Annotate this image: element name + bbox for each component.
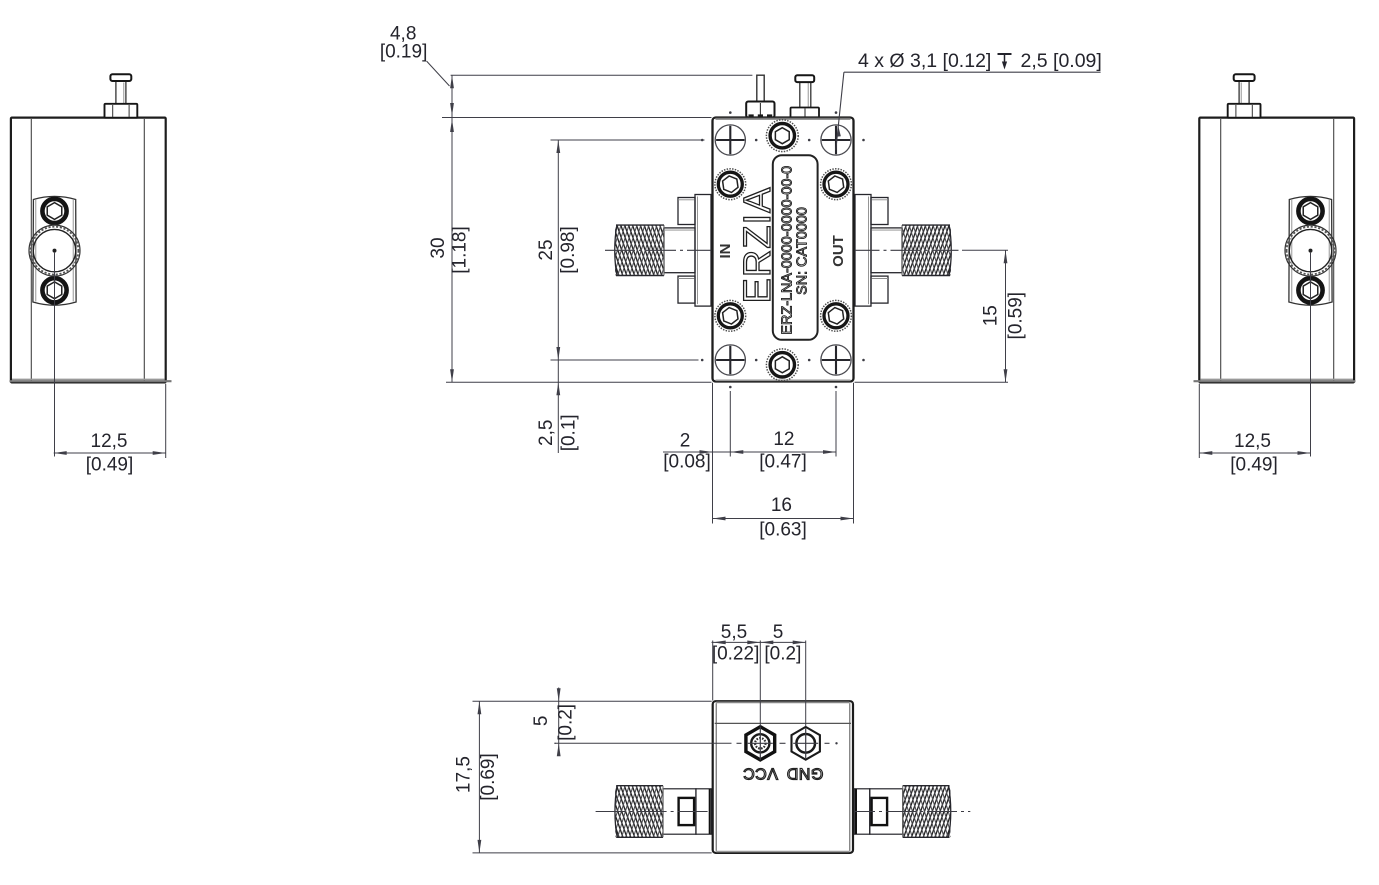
svg-text:5,5: 5,5 [721, 622, 747, 643]
svg-text:[0.59]: [0.59] [1006, 292, 1027, 340]
svg-text:15: 15 [980, 305, 1001, 326]
svg-text:25: 25 [536, 239, 557, 260]
svg-text:OUT: OUT [830, 235, 847, 267]
svg-text:[0.08]: [0.08] [663, 452, 711, 473]
svg-text:[0.2]: [0.2] [764, 643, 801, 664]
svg-text:[0.49]: [0.49] [86, 455, 134, 476]
svg-text:[1.18]: [1.18] [450, 226, 471, 274]
svg-text:12,5: 12,5 [1234, 431, 1271, 452]
svg-text:17,5: 17,5 [454, 756, 475, 793]
svg-text:[0.63]: [0.63] [759, 520, 807, 541]
svg-text:[0.1]: [0.1] [558, 414, 579, 451]
svg-text:[0.47]: [0.47] [759, 451, 807, 472]
svg-text:SN: CAT0000: SN: CAT0000 [795, 207, 811, 295]
svg-text:4 x Ø 3,1 [0.12]: 4 x Ø 3,1 [0.12] [858, 50, 991, 72]
svg-text:12: 12 [773, 429, 794, 450]
svg-text:12,5: 12,5 [91, 431, 128, 452]
svg-text:GND: GND [786, 765, 823, 782]
svg-text:16: 16 [771, 495, 792, 516]
svg-text:30: 30 [428, 237, 449, 258]
svg-text:ERZ-LNA-0000-0000-00-0: ERZ-LNA-0000-0000-00-0 [779, 166, 795, 335]
svg-text:2,5 [0.09]: 2,5 [0.09] [1021, 50, 1102, 72]
svg-text:5: 5 [773, 622, 784, 643]
svg-text:[0.49]: [0.49] [1230, 455, 1278, 476]
svg-text:[0.98]: [0.98] [558, 226, 579, 274]
svg-text:[0.22]: [0.22] [712, 643, 760, 664]
svg-text:5: 5 [531, 716, 552, 727]
svg-text:2,5: 2,5 [536, 420, 557, 446]
svg-text:[0.69]: [0.69] [478, 753, 499, 801]
svg-text:[0.2]: [0.2] [555, 704, 576, 741]
svg-text:2: 2 [680, 431, 691, 452]
svg-text:IN: IN [717, 244, 734, 259]
svg-text:[0.19]: [0.19] [380, 41, 428, 62]
svg-text:VCC: VCC [743, 765, 778, 782]
svg-text:ERZIA: ERZIA [737, 187, 779, 304]
